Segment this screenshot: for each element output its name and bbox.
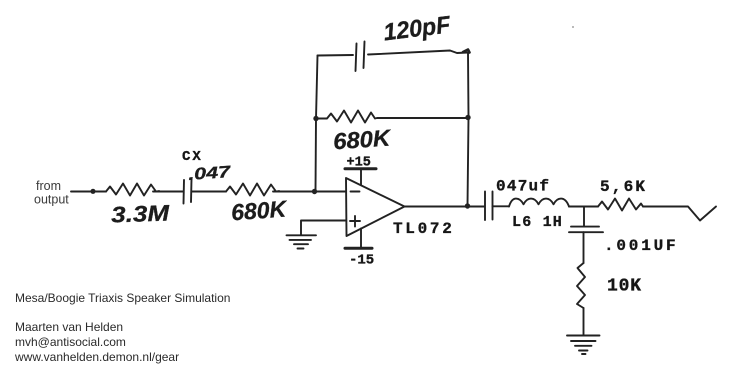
ref label CX (182, 149, 203, 165)
svg-text:from: from (36, 179, 61, 193)
svg-text:output: output (34, 193, 69, 207)
resistor 3.3M (106, 184, 159, 196)
value label .001UF (604, 237, 678, 255)
wire: top left segment to 120pF (318, 54, 354, 57)
label: from output (34, 179, 69, 207)
svg-text:.001UF: .001UF (604, 237, 678, 255)
ground (op-amp + input) (287, 235, 317, 248)
inductor L6 1H (509, 199, 569, 207)
capacitor .001UF (569, 227, 603, 233)
wire: feedback right vertical (468, 53, 469, 207)
svg-text:047uf: 047uf (496, 178, 550, 196)
wire: CX to 680K (192, 191, 226, 193)
value label 3.3M (111, 200, 171, 227)
wire: 3.3M to CX (153, 191, 183, 193)
node: feedback left dot (313, 116, 318, 121)
ref/value label L6 1H (512, 214, 563, 231)
op-amp U1 TL072 (346, 178, 405, 236)
wire: 10K to ground (583, 308, 585, 335)
capacitor 047uf (485, 192, 493, 221)
svg-text:680K: 680K (332, 124, 392, 154)
op-amp minus sign (351, 191, 360, 193)
svg-text:120pF: 120pF (382, 11, 453, 46)
node: feedback right top dot (465, 115, 470, 120)
wire: 680K to op-amp inverting input (273, 191, 346, 193)
capacitor CX (.047) (184, 179, 192, 204)
wire: L6 to junction to 5.6K (569, 206, 598, 208)
wire: 047uf to L6 (493, 205, 510, 207)
wire: input lead (71, 191, 106, 193)
node: inverting input junction dot (312, 189, 317, 194)
value label 12cpF (120pF) (382, 11, 453, 46)
node: output junction dot (465, 203, 470, 208)
svg-text:5,6K: 5,6K (600, 178, 647, 196)
power +15 supply (345, 156, 376, 186)
wire: junction down to .001UF (583, 207, 585, 227)
svg-text:10K: 10K (607, 277, 642, 297)
ink speck (572, 26, 574, 28)
value label 680K (feedback) (332, 124, 392, 154)
value label 10K (607, 277, 642, 297)
wire: op-amp output (405, 206, 485, 208)
ref label TL072 (393, 220, 455, 238)
wire: non-inverting input to ground (301, 221, 346, 236)
website text (15, 350, 179, 364)
svg-text:3.3M: 3.3M (111, 200, 171, 227)
wire: .001UF to 10K (583, 232, 585, 263)
node: input junction dot (90, 189, 95, 194)
svg-text:680K: 680K (230, 195, 288, 225)
wire: feedback left vertical (316, 56, 318, 192)
svg-text:L6 1H: L6 1H (512, 214, 563, 231)
svg-text:CX: CX (182, 149, 203, 165)
resistor 680K (feedback) (316, 111, 466, 123)
value label .047 (188, 163, 232, 184)
value label 680K (input) (230, 195, 288, 225)
value label 047uf (496, 178, 550, 196)
wire: output lead with end hook (643, 207, 716, 221)
power -15 supply (345, 229, 374, 269)
capacitor 120pF (356, 42, 365, 72)
resistor 5.6K (598, 199, 643, 211)
author text (15, 320, 123, 334)
svg-text:-15: -15 (349, 253, 374, 269)
wire: 120pF to right top corner (368, 51, 468, 55)
corner knot (hand overshoot) (463, 50, 470, 53)
resistor 680K (input) (226, 184, 279, 196)
email text (15, 335, 126, 349)
value label 5,6K (600, 178, 647, 196)
op-amp plus sign (350, 216, 360, 227)
title text (15, 291, 230, 305)
svg-text:.047: .047 (188, 163, 232, 184)
resistor 10K (vertical) (577, 263, 585, 308)
svg-text:TL072: TL072 (393, 220, 455, 238)
ground (bottom) (567, 336, 600, 355)
